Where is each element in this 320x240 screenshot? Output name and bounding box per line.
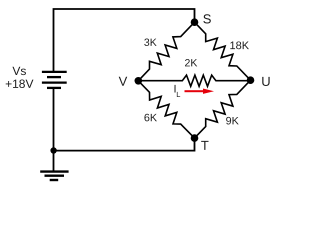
svg-text:3K: 3K	[144, 37, 157, 49]
svg-text:S: S	[203, 11, 212, 26]
svg-text:6K: 6K	[144, 112, 158, 124]
svg-text:+18V: +18V	[5, 77, 33, 91]
node T	[191, 134, 199, 142]
junction ground node	[50, 147, 56, 153]
resistor 6K (V to T)	[138, 81, 194, 138]
node V	[135, 77, 143, 85]
ground	[40, 172, 68, 180]
resistor 2K (V to U)	[138, 75, 250, 86]
resistor 9K (T to U)	[195, 80, 251, 138]
current IL red arrow	[185, 89, 215, 94]
svg-text:18K: 18K	[230, 40, 250, 52]
resistor 3K (V to S)	[138, 22, 194, 81]
svg-text:L: L	[176, 90, 180, 99]
wire bottom: junction to node T	[54, 138, 195, 151]
svg-text:U: U	[261, 74, 270, 89]
wire top: battery top to node S	[54, 9, 195, 72]
resistor 18K (S to U)	[195, 22, 251, 80]
svg-text:T: T	[201, 138, 209, 153]
wire: battery bottom to ground	[53, 88, 55, 171]
svg-text:V: V	[119, 74, 128, 89]
svg-text:9K: 9K	[226, 115, 240, 127]
node U	[247, 76, 255, 84]
svg-text:2K: 2K	[184, 57, 197, 69]
node S	[191, 18, 199, 26]
battery Vs plates	[42, 72, 67, 88]
svg-text:Vs: Vs	[12, 64, 26, 78]
